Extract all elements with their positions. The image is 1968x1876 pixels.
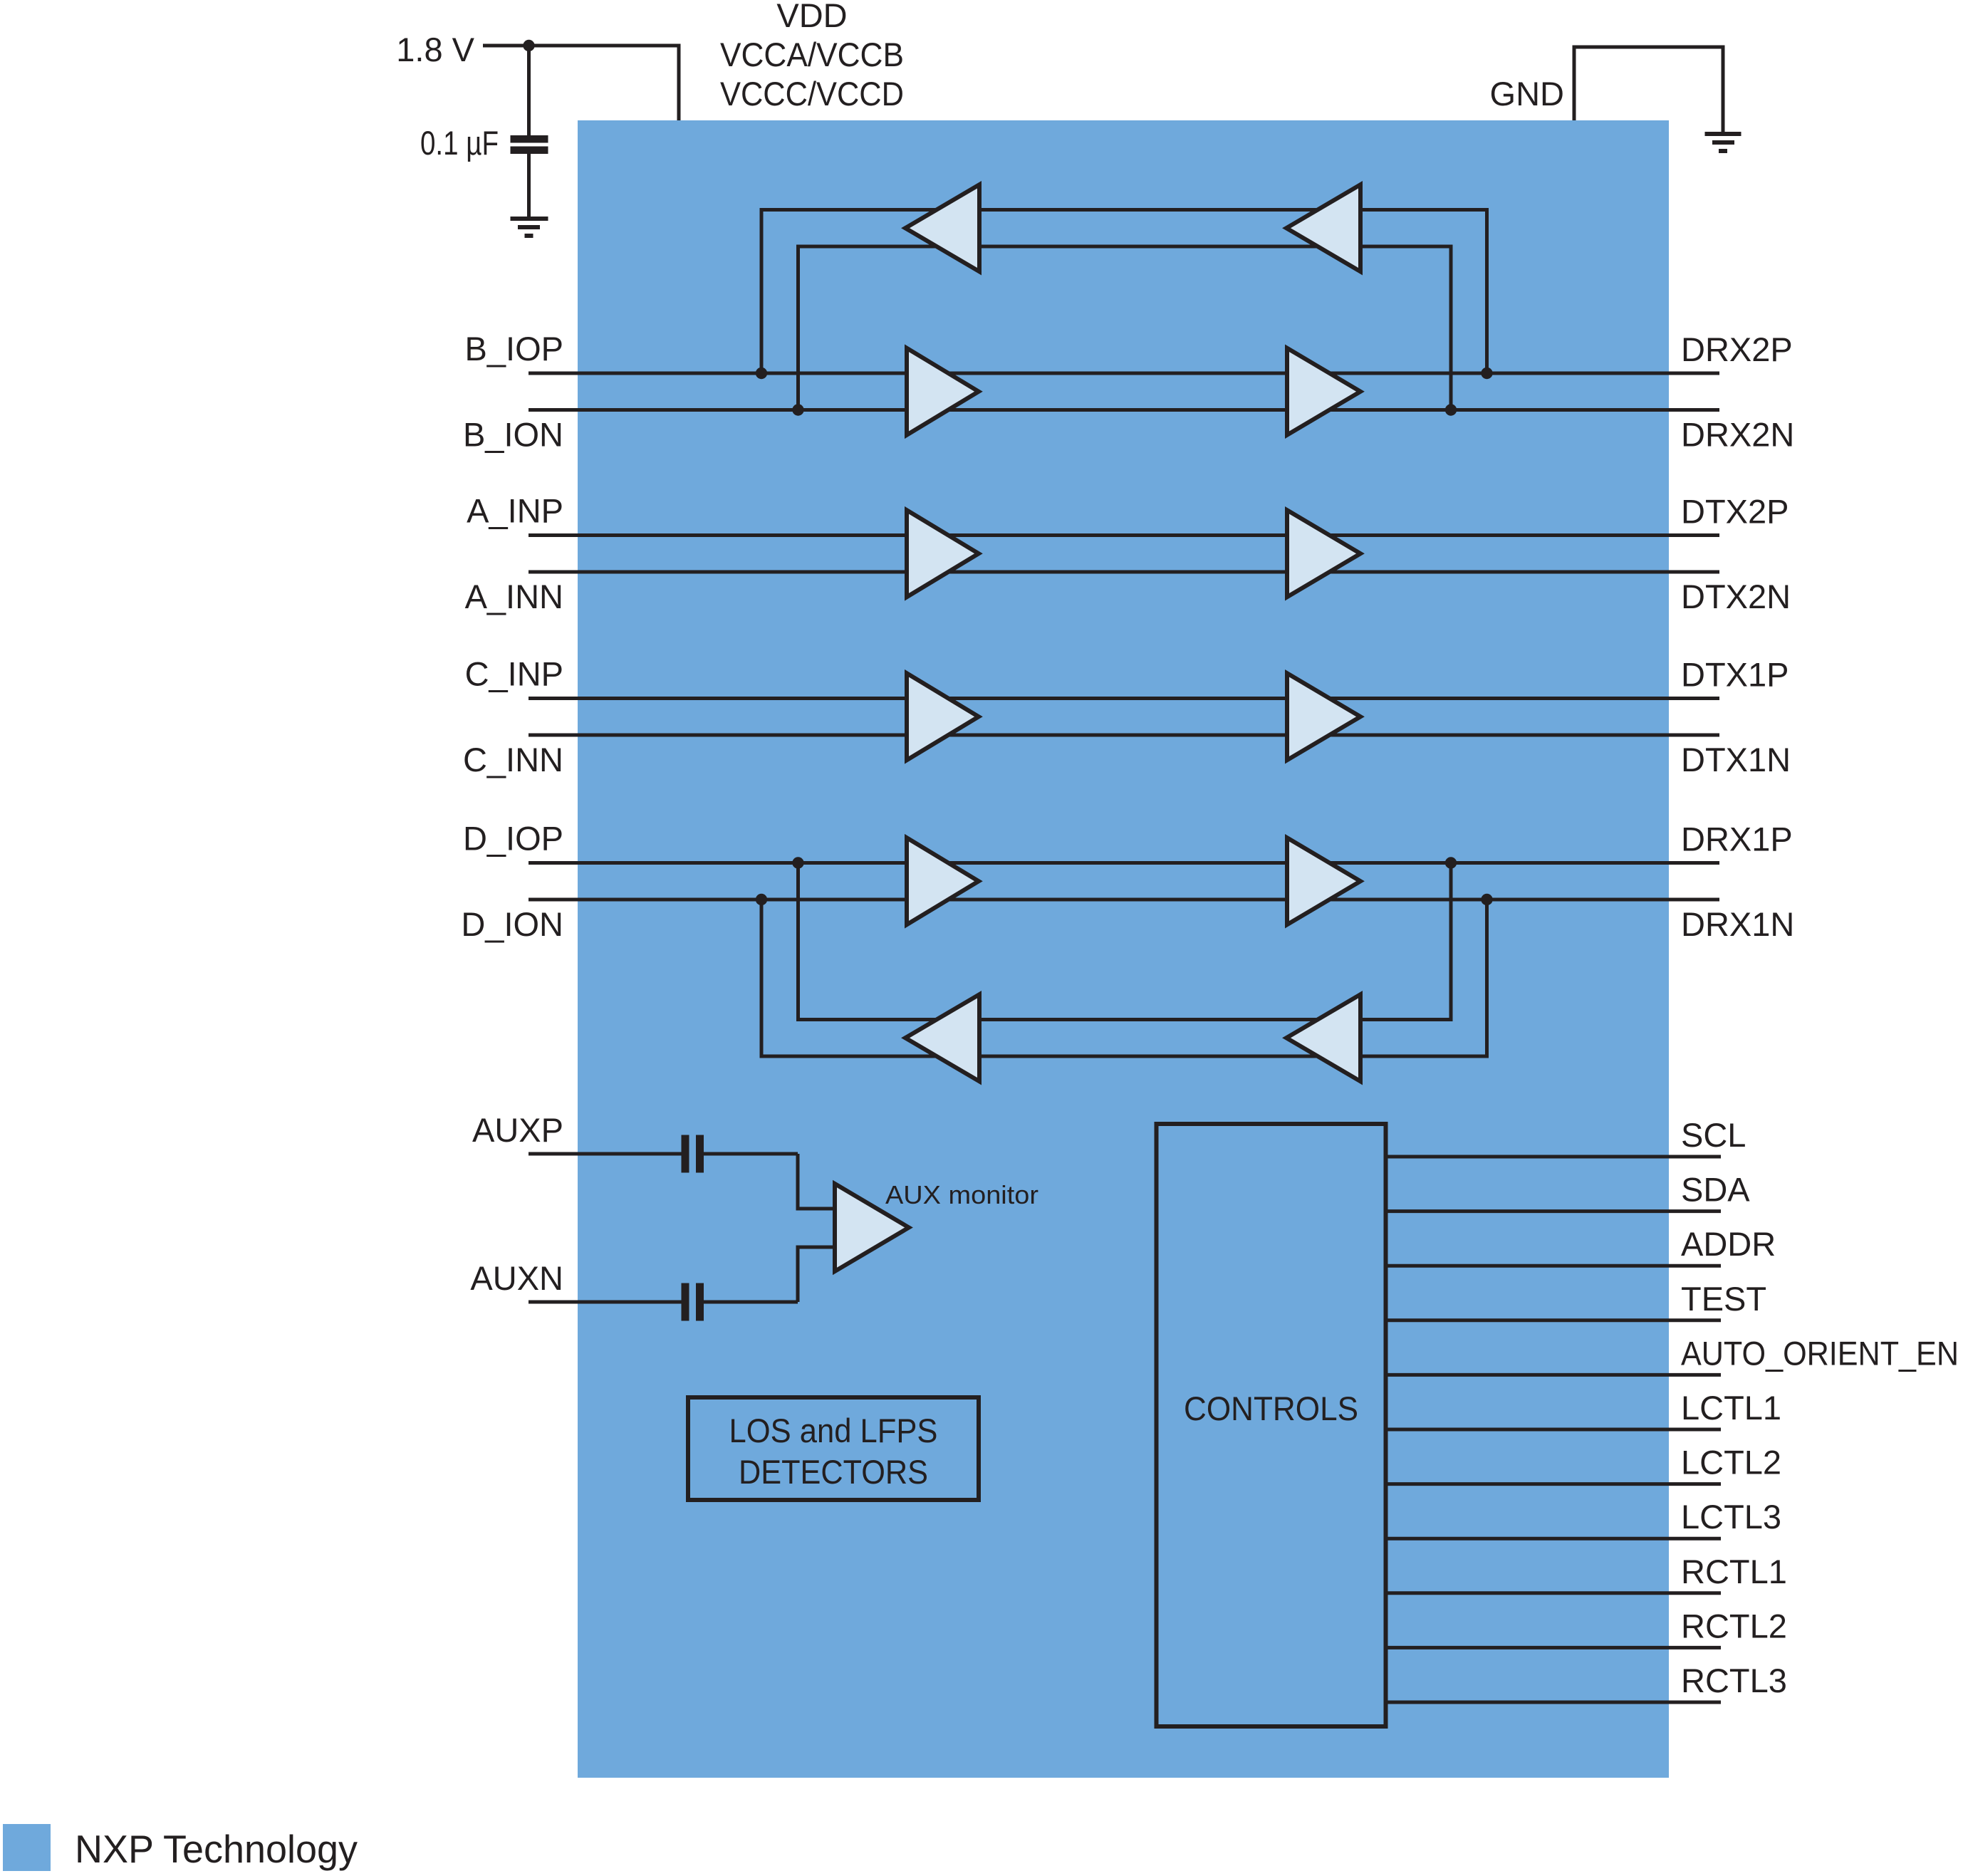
svg-text:DRX2P: DRX2P xyxy=(1681,330,1793,368)
svg-text:DETECTORS: DETECTORS xyxy=(739,1453,928,1491)
wire bottom return upper right vertical xyxy=(1449,863,1453,1020)
wire GND down to ground xyxy=(1722,47,1725,134)
node DRX2N junction xyxy=(1445,404,1457,415)
wire bottom return lower horizontal xyxy=(760,1055,1489,1058)
svg-text:TEST: TEST xyxy=(1681,1280,1766,1318)
buffer AUX monitor (right-pointing) xyxy=(835,1184,909,1271)
capacitor C1 plates xyxy=(511,135,548,143)
node supply junction xyxy=(523,40,534,51)
wire top return inner right vertical xyxy=(1449,246,1453,410)
svg-text:0.1 µF: 0.1 µF xyxy=(420,124,499,162)
svg-text:A_INN: A_INN xyxy=(465,578,563,615)
svg-text:C_INN: C_INN xyxy=(463,741,563,778)
buffer channel C first stage (right-pointing) xyxy=(907,673,979,760)
wire bottom return upper horizontal xyxy=(796,1018,1453,1021)
buffer top return left stage (left-pointing) xyxy=(905,184,979,271)
wire AUXN bend up xyxy=(796,1247,800,1302)
wire top return inner left vertical xyxy=(796,246,800,410)
node D_IOP left junction xyxy=(792,857,803,868)
svg-text:C_INP: C_INP xyxy=(465,655,563,693)
wire C_INN to DTX1N xyxy=(529,734,1719,737)
svg-text:LOS and LFPS: LOS and LFPS xyxy=(729,1412,938,1449)
wire AUXN to capacitor C3 xyxy=(529,1301,682,1304)
svg-text:DRX2N: DRX2N xyxy=(1681,416,1794,454)
svg-text:DRX1P: DRX1P xyxy=(1681,820,1793,858)
wire top return outer horizontal xyxy=(760,208,1489,212)
node D_ION left junction xyxy=(756,894,767,905)
svg-text:SDA: SDA xyxy=(1681,1171,1750,1209)
wire top return outer left vertical xyxy=(760,210,764,374)
block LOS and LFPS DETECTORS xyxy=(688,1397,979,1500)
wire top return outer right vertical xyxy=(1485,210,1489,374)
buffer bottom return left stage (left-pointing) xyxy=(905,994,979,1081)
wire capacitor C3 to bend xyxy=(704,1301,798,1304)
svg-text:AUXN: AUXN xyxy=(470,1259,563,1297)
node B_ION left junction xyxy=(792,404,803,415)
svg-text:CONTROLS: CONTROLS xyxy=(1184,1390,1358,1427)
wire junction to capacitor C1 xyxy=(527,46,531,136)
wire GND horizontal xyxy=(1573,46,1725,49)
wire 1.8V supply horizontal xyxy=(483,44,679,48)
svg-text:VDD: VDD xyxy=(776,0,847,34)
wire AUXP to capacitor C2 xyxy=(529,1152,682,1156)
svg-text:RCTL2: RCTL2 xyxy=(1681,1607,1787,1645)
wire CONTROLS pin SCL xyxy=(1386,1155,1722,1159)
svg-text:AUX monitor: AUX monitor xyxy=(885,1180,1038,1209)
wire A_INP to DTX2P xyxy=(529,533,1719,537)
svg-text:GND: GND xyxy=(1490,75,1564,113)
wire bottom return lower right vertical xyxy=(1485,900,1489,1056)
svg-text:DTX2N: DTX2N xyxy=(1681,578,1791,615)
buffer channel C second stage (right-pointing) xyxy=(1287,673,1360,760)
wire GND pin up xyxy=(1573,46,1576,121)
capacitor C2 plates xyxy=(682,1135,689,1173)
wire CONTROLS pin TEST xyxy=(1386,1318,1722,1322)
node DRX2P junction xyxy=(1481,368,1492,379)
wire CONTROLS pin LCTL3 xyxy=(1386,1537,1722,1541)
wire AUXP stub into AUX buffer xyxy=(796,1207,835,1211)
buffer channel D first stage (right-pointing) xyxy=(907,838,979,924)
node B_IOP left junction xyxy=(756,368,767,379)
wire D_IOP to DRX1P xyxy=(529,861,1719,865)
capacitor C3 plates xyxy=(682,1283,689,1321)
wire CONTROLS pin SDA xyxy=(1386,1209,1722,1213)
svg-text:1.8 V: 1.8 V xyxy=(396,31,474,68)
svg-text:VCCC/VCCD: VCCC/VCCD xyxy=(720,75,904,113)
wire bottom return lower left vertical xyxy=(760,900,764,1056)
wire D_ION to DRX1N xyxy=(529,898,1719,902)
wire CONTROLS pin AUTO_ORIENT_EN xyxy=(1386,1373,1722,1377)
svg-text:AUXP: AUXP xyxy=(472,1111,563,1149)
buffer channel B second stage (right-pointing) xyxy=(1287,348,1360,435)
svg-text:B_IOP: B_IOP xyxy=(465,330,563,368)
ground symbol left xyxy=(511,217,548,221)
node DRX1P junction xyxy=(1445,857,1457,868)
wire CONTROLS pin LCTL2 xyxy=(1386,1482,1722,1486)
svg-text:NXP Technology: NXP Technology xyxy=(75,1827,358,1871)
svg-text:LCTL3: LCTL3 xyxy=(1681,1498,1781,1536)
wire top return inner horizontal xyxy=(796,245,1453,249)
svg-text:DRX1N: DRX1N xyxy=(1681,905,1794,943)
svg-text:DTX1P: DTX1P xyxy=(1681,656,1789,694)
svg-text:DTX2P: DTX2P xyxy=(1681,493,1789,531)
wire AUXP bend down xyxy=(796,1154,800,1209)
node DRX1N junction xyxy=(1481,894,1492,905)
buffer top return right stage (left-pointing) xyxy=(1286,184,1360,271)
buffer channel B first stage (right-pointing) xyxy=(907,348,979,435)
buffer channel D second stage (right-pointing) xyxy=(1287,838,1360,924)
svg-text:LCTL2: LCTL2 xyxy=(1681,1444,1781,1481)
ground symbol right xyxy=(1705,132,1741,136)
svg-text:LCTL1: LCTL1 xyxy=(1681,1389,1781,1427)
svg-text:D_IOP: D_IOP xyxy=(463,820,563,858)
wire A_INN to DTX2N xyxy=(529,570,1719,574)
svg-text:SCL: SCL xyxy=(1681,1116,1746,1154)
svg-text:D_ION: D_ION xyxy=(461,905,563,943)
svg-text:AUTO_ORIENT_EN: AUTO_ORIENT_EN xyxy=(1681,1334,1959,1372)
wire capacitor C2 to bend xyxy=(704,1152,798,1156)
legend color swatch xyxy=(3,1824,51,1871)
svg-text:RCTL1: RCTL1 xyxy=(1681,1553,1787,1590)
svg-text:VCCA/VCCB: VCCA/VCCB xyxy=(720,36,904,73)
wire CONTROLS pin RCTL3 xyxy=(1386,1701,1722,1704)
wire CONTROLS pin ADDR xyxy=(1386,1264,1722,1268)
block CONTROLS xyxy=(1157,1124,1386,1726)
svg-text:DTX1N: DTX1N xyxy=(1681,741,1791,778)
buffer bottom return right stage (left-pointing) xyxy=(1286,994,1360,1081)
wire B_IOP to DRX2P xyxy=(529,372,1719,375)
svg-text:ADDR: ADDR xyxy=(1681,1225,1776,1263)
wire CONTROLS pin RCTL1 xyxy=(1386,1591,1722,1595)
IC body (blue block) xyxy=(578,120,1669,1778)
wire capacitor C1 to ground xyxy=(527,154,531,219)
wire bottom return upper left vertical xyxy=(796,863,800,1020)
svg-text:A_INP: A_INP xyxy=(467,492,563,530)
wire C_INP to DTX1P xyxy=(529,697,1719,700)
svg-text:RCTL3: RCTL3 xyxy=(1681,1662,1787,1699)
buffer channel A first stage (right-pointing) xyxy=(907,510,979,597)
wire AUXN stub into AUX buffer xyxy=(796,1246,835,1249)
svg-text:B_ION: B_ION xyxy=(463,416,563,454)
wire CONTROLS pin LCTL1 xyxy=(1386,1428,1722,1432)
buffer channel A second stage (right-pointing) xyxy=(1287,510,1360,597)
wire B_ION to DRX2N xyxy=(529,408,1719,412)
wire supply drop into VDD pin xyxy=(677,44,681,121)
wire CONTROLS pin RCTL2 xyxy=(1386,1646,1722,1650)
